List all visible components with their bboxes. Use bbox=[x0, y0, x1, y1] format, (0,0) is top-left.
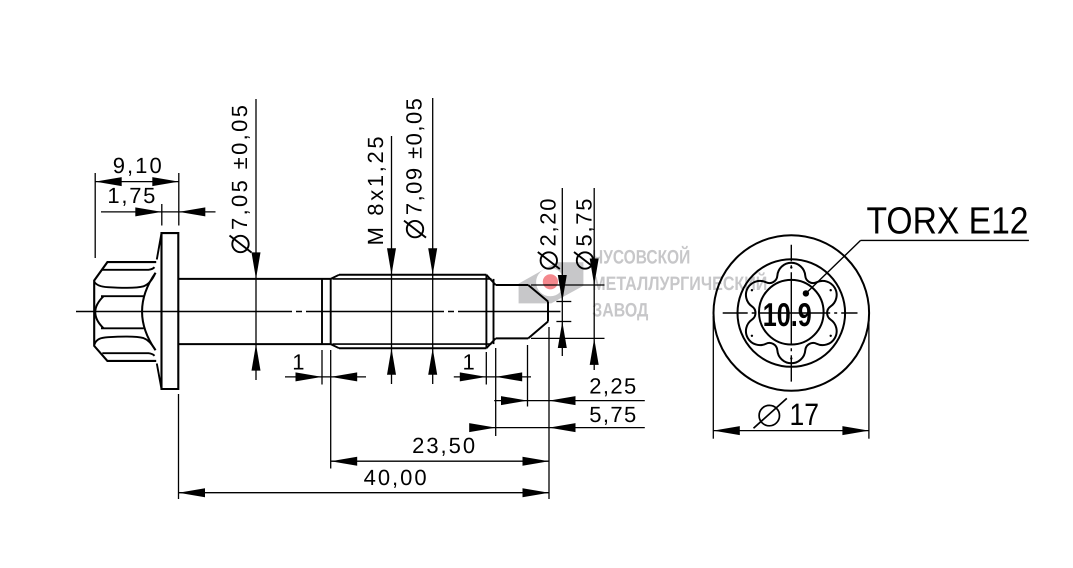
thread minor top line bbox=[333, 278, 492, 280]
head lower flute curve bbox=[94, 337, 155, 351]
dim dia5,75 ext top bbox=[531, 284, 605, 286]
dim 9,10 arrow left bbox=[95, 177, 122, 186]
dim 5,75h arrow right bbox=[549, 423, 576, 432]
bolt head silhouette bbox=[94, 262, 156, 361]
dim 23,50 line bbox=[331, 460, 549, 462]
dim 1b extension right bbox=[495, 348, 497, 436]
thread end line 1 bbox=[485, 275, 487, 348]
tip end flat bbox=[547, 302, 549, 322]
dim 40,00 extension right bbox=[548, 327, 550, 499]
dim dia2,20 arrow top bbox=[558, 275, 567, 302]
torx E12 star profile bbox=[746, 263, 837, 363]
end view centerline horizontal bbox=[723, 312, 858, 314]
dim 40,00 arrow right bbox=[523, 488, 550, 497]
dim 1b arrow right bbox=[496, 372, 523, 381]
thread end chamfer bottom bbox=[486, 338, 495, 348]
svg-text:ЧУСОВСКОЙ: ЧУСОВСКОЙ bbox=[592, 246, 690, 269]
svg-text:7,09 ±0,05: 7,09 ±0,05 bbox=[402, 98, 427, 215]
svg-text:1: 1 bbox=[292, 350, 304, 375]
tip cone top line bbox=[528, 285, 548, 302]
dim 40,00 line bbox=[179, 492, 550, 494]
dim dia2,20 text bbox=[535, 199, 560, 270]
dim dia7,09 text bbox=[402, 98, 427, 238]
tip cone bottom line bbox=[528, 322, 548, 339]
dim dia17 extension left bbox=[712, 316, 714, 439]
end view inner circle bbox=[759, 280, 824, 345]
watermark logo hexagon bbox=[519, 262, 584, 303]
label TORX E12 underline bbox=[861, 239, 1029, 241]
head flute valley lower line bbox=[101, 327, 144, 329]
dim 1a arrow right bbox=[331, 372, 358, 381]
head bottom face inner line bbox=[102, 353, 154, 356]
svg-text:17: 17 bbox=[790, 397, 820, 432]
svg-text:1,75: 1,75 bbox=[107, 183, 155, 208]
dim dia7,09 arrow top bbox=[428, 248, 437, 274]
dim dia17 arrow left bbox=[713, 426, 740, 435]
svg-text:1: 1 bbox=[462, 350, 474, 375]
dim 1b arrow left bbox=[460, 372, 487, 381]
dim dia7,09 line bbox=[432, 98, 434, 384]
dim 9,10 extension line left bbox=[94, 173, 96, 258]
dim 5,75h arrow left bbox=[469, 423, 496, 432]
dim dia5,75 arrow top bbox=[590, 259, 599, 286]
dim dia2,20 ext tick bottom bbox=[556, 321, 571, 323]
dim 9,10 arrow right bbox=[152, 177, 179, 186]
svg-text:2,25: 2,25 bbox=[589, 374, 636, 399]
dim dia7,09 arrow bottom bbox=[428, 348, 437, 375]
torx lobe tip dots bbox=[790, 266, 792, 268]
dim 23,50 arrow left bbox=[331, 457, 358, 466]
thread crest bottom line bbox=[339, 347, 486, 349]
head top face inner line bbox=[102, 267, 154, 270]
tip neck top line bbox=[496, 284, 529, 286]
head flute valley upper line bbox=[101, 295, 144, 297]
dim 1,75 arrow right bbox=[179, 207, 206, 216]
head upper flute curve bbox=[94, 273, 155, 288]
dim dia7,05 arrow top bbox=[252, 252, 261, 279]
dim 2,25 arrow left bbox=[501, 396, 528, 405]
head right lobe curve bbox=[142, 273, 155, 350]
svg-text:TORX E12: TORX E12 bbox=[867, 200, 1029, 242]
dim dia5,75 arrow bottom bbox=[590, 338, 599, 365]
dim 1b line bbox=[454, 376, 531, 378]
dim M8x1,25 text bbox=[363, 136, 388, 245]
end view middle circle (head points) bbox=[738, 259, 846, 367]
centerline side view bbox=[76, 311, 561, 313]
dim 1,75 line bbox=[101, 211, 216, 213]
thread crest top line bbox=[339, 274, 486, 276]
dim 5,75h line bbox=[486, 427, 645, 429]
dim 40,00 arrow left bbox=[179, 488, 206, 497]
dim dia5,75 line bbox=[593, 188, 595, 370]
dim dia7,05 arrow bottom bbox=[252, 344, 261, 371]
dim 2,25 extension left bbox=[527, 345, 529, 407]
watermark logo white disc bbox=[536, 268, 564, 296]
dim dia2,20 ext tick top bbox=[556, 301, 571, 303]
dim dia5,75 ext bottom bbox=[531, 337, 605, 339]
shank top line bbox=[178, 278, 330, 280]
dim dia17 text bbox=[754, 397, 820, 432]
dim M8x1,25 arrow top bbox=[387, 248, 396, 274]
dim 1,75 arrow left bbox=[135, 207, 162, 216]
label TORX E12 leader dot bbox=[803, 290, 809, 296]
thread end line 2 bbox=[493, 279, 495, 344]
thread runout line 1 bbox=[321, 279, 323, 344]
svg-text:23,50: 23,50 bbox=[412, 433, 475, 458]
dim dia17 extension right bbox=[868, 316, 870, 439]
svg-text:5,75: 5,75 bbox=[589, 402, 636, 427]
head left lobe curve bbox=[95, 296, 103, 328]
end view outer circle (flange dia 17) bbox=[714, 235, 870, 391]
flange washer outline bbox=[162, 233, 179, 389]
dim M8x1,25 line bbox=[391, 136, 393, 384]
dim dia7,05 text bbox=[227, 105, 252, 253]
shank bottom line bbox=[178, 343, 330, 345]
dim 9,10 extension line right bbox=[178, 173, 180, 226]
dim 1a extension left bbox=[321, 350, 323, 385]
dim 2,25 line bbox=[494, 400, 645, 402]
dim 1a extension right bbox=[330, 350, 332, 469]
dim 2,25 arrow right bbox=[549, 396, 576, 405]
watermark logo red disc bbox=[543, 274, 558, 289]
dim M8x1,25 arrow bottom bbox=[387, 348, 396, 375]
dim dia17 line bbox=[713, 430, 869, 432]
dim dia7,05 line bbox=[255, 99, 257, 380]
flange cone lower line bbox=[157, 364, 162, 390]
svg-text:5,75: 5,75 bbox=[572, 199, 597, 247]
svg-text:40,00: 40,00 bbox=[364, 465, 427, 490]
thread start chamfer top bbox=[331, 275, 339, 279]
label TORX E12 leader line bbox=[806, 240, 861, 293]
thread minor bottom line bbox=[333, 343, 492, 345]
dim 1a line bbox=[285, 376, 366, 378]
dim 9,10 line bbox=[95, 181, 179, 183]
dim dia5,75 text bbox=[572, 199, 597, 270]
end view centerline vertical bbox=[790, 245, 792, 382]
dim 1,75 extension line bbox=[161, 204, 163, 226]
svg-text:10.9: 10.9 bbox=[763, 296, 812, 333]
svg-text:7,05 ±0,05: 7,05 ±0,05 bbox=[227, 105, 252, 230]
thread runout line 2 bbox=[330, 279, 332, 344]
thread end chamfer top bbox=[486, 275, 495, 285]
thread start chamfer bottom bbox=[331, 344, 339, 348]
svg-text:2,20: 2,20 bbox=[535, 199, 560, 247]
dim 1b extension left bbox=[485, 352, 487, 385]
dim dia2,20 arrow bottom bbox=[558, 322, 567, 349]
dim dia17 arrow right bbox=[842, 426, 869, 435]
svg-text:ЗАВОД: ЗАВОД bbox=[592, 300, 648, 322]
flange cone upper line bbox=[157, 233, 162, 259]
svg-text:M 8x1,25: M 8x1,25 bbox=[363, 136, 388, 245]
svg-text:9,10: 9,10 bbox=[113, 153, 162, 178]
dim 40,00 extension left bbox=[178, 394, 180, 499]
dim dia2,20 line bbox=[561, 188, 563, 356]
dim 23,50 arrow right bbox=[523, 457, 550, 466]
dim 1a arrow left bbox=[296, 372, 323, 381]
tip neck bottom line bbox=[496, 337, 529, 339]
